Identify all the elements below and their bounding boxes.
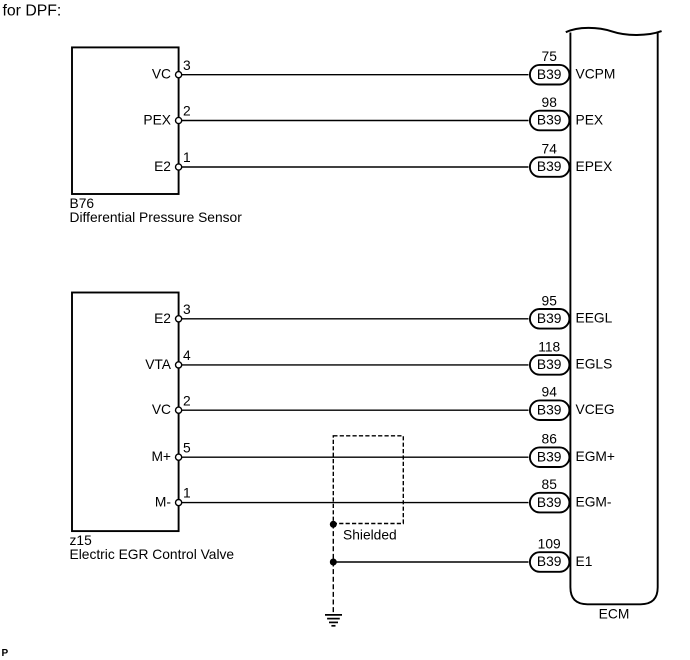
wire E2 (B76 pin 1) to EPEX [179, 166, 529, 168]
svg-text:85: 85 [542, 477, 558, 492]
svg-text:EPEX: EPEX [576, 159, 613, 174]
pin circle z15-2 [176, 407, 182, 413]
terminal B39 pin 85 [530, 493, 570, 513]
svg-text:74: 74 [542, 142, 558, 157]
pin circle z15-5 [176, 454, 182, 460]
svg-text:Differential Pressure Sensor: Differential Pressure Sensor [70, 210, 243, 225]
svg-text:VTA: VTA [145, 357, 172, 372]
svg-text:EGM+: EGM+ [576, 449, 615, 464]
svg-text:M-: M- [155, 495, 171, 510]
svg-text:z15: z15 [70, 533, 93, 548]
svg-text:Electric EGR Control Valve: Electric EGR Control Valve [70, 547, 235, 562]
svg-text:B39: B39 [537, 402, 562, 417]
svg-text:118: 118 [538, 339, 560, 354]
ECM wavy top edge [566, 28, 662, 35]
ECM body outline [570, 33, 657, 605]
svg-text:VCPM: VCPM [576, 67, 616, 82]
svg-text:B39: B39 [537, 113, 562, 128]
svg-text:EGLS: EGLS [576, 357, 613, 372]
svg-text:E2: E2 [154, 159, 171, 174]
pin circle B76-1 [176, 164, 182, 170]
junction dot (shield to drain) [330, 521, 337, 528]
connector z15 (Electric EGR Control Valve) box [72, 293, 179, 532]
svg-text:B39: B39 [537, 554, 562, 569]
svg-text:VC: VC [152, 402, 171, 417]
wire shield drain to E1 [333, 561, 528, 563]
svg-text:PEX: PEX [143, 113, 171, 128]
pin circle B76-3 [176, 72, 182, 78]
connector B76 (Differential Pressure Sensor) box [72, 47, 179, 194]
terminal B39 pin 109 [530, 552, 570, 572]
svg-text:B39: B39 [537, 159, 562, 174]
svg-text:for DPF:: for DPF: [3, 3, 62, 20]
junction dot (drain to E1 wire) [330, 559, 337, 566]
terminal B39 pin 74 [530, 157, 570, 177]
svg-text:E1: E1 [576, 554, 593, 569]
terminal B39 pin 75 [530, 65, 570, 85]
svg-text:B39: B39 [537, 67, 562, 82]
svg-text:109: 109 [538, 537, 561, 552]
shield dashed box [333, 436, 403, 524]
shield drain dashed wire to ground [332, 524, 334, 613]
svg-text:95: 95 [542, 293, 558, 308]
wire PEX (B76 pin 2) to PEX [179, 120, 529, 122]
svg-text:B39: B39 [537, 357, 562, 372]
svg-text:1: 1 [183, 150, 191, 165]
svg-text:1: 1 [183, 486, 191, 501]
svg-text:PEX: PEX [576, 112, 604, 127]
svg-text:98: 98 [542, 95, 558, 110]
ground symbol [325, 615, 342, 626]
terminal B39 pin 118 [530, 355, 570, 375]
wire VTA (z15 pin 4) to EGLS [179, 364, 529, 366]
svg-text:B76: B76 [70, 196, 95, 211]
wire VC (B76 pin 3) to VCPM [179, 74, 529, 76]
svg-text:94: 94 [542, 385, 558, 400]
svg-text:2: 2 [183, 393, 191, 408]
pin circle z15-1 [176, 500, 182, 506]
svg-text:B39: B39 [537, 311, 562, 326]
svg-text:2: 2 [183, 104, 191, 119]
svg-text:ECM: ECM [599, 607, 630, 622]
pin circle z15-4 [176, 362, 182, 368]
svg-text:VC: VC [152, 67, 171, 82]
svg-text:3: 3 [183, 58, 191, 73]
terminal B39 pin 94 [530, 400, 570, 420]
svg-text:Shielded: Shielded [343, 528, 397, 543]
pin circle B76-2 [176, 117, 182, 123]
wire E2 (z15 pin 3) to EEGL [179, 318, 529, 320]
pin circle z15-3 [176, 316, 182, 322]
wire M- (z15 pin 1) to EGM- [179, 502, 529, 504]
svg-text:P: P [2, 648, 9, 659]
svg-text:4: 4 [183, 348, 191, 363]
terminal B39 pin 86 [530, 447, 570, 467]
svg-text:86: 86 [542, 432, 558, 447]
svg-text:B39: B39 [537, 495, 562, 510]
svg-text:VCEG: VCEG [576, 402, 615, 417]
terminal B39 pin 95 [530, 309, 570, 329]
svg-text:E2: E2 [154, 311, 171, 326]
svg-text:3: 3 [183, 302, 191, 317]
wire M+ (z15 pin 5) to EGM+ [179, 456, 529, 458]
terminal B39 pin 98 [530, 111, 570, 131]
svg-text:M+: M+ [151, 449, 171, 464]
svg-text:EGM-: EGM- [576, 494, 612, 509]
svg-text:B39: B39 [537, 449, 562, 464]
wire VC (z15 pin 2) to VCEG [179, 409, 529, 411]
svg-text:EEGL: EEGL [576, 311, 613, 326]
svg-text:5: 5 [183, 440, 191, 455]
svg-text:75: 75 [542, 49, 558, 64]
